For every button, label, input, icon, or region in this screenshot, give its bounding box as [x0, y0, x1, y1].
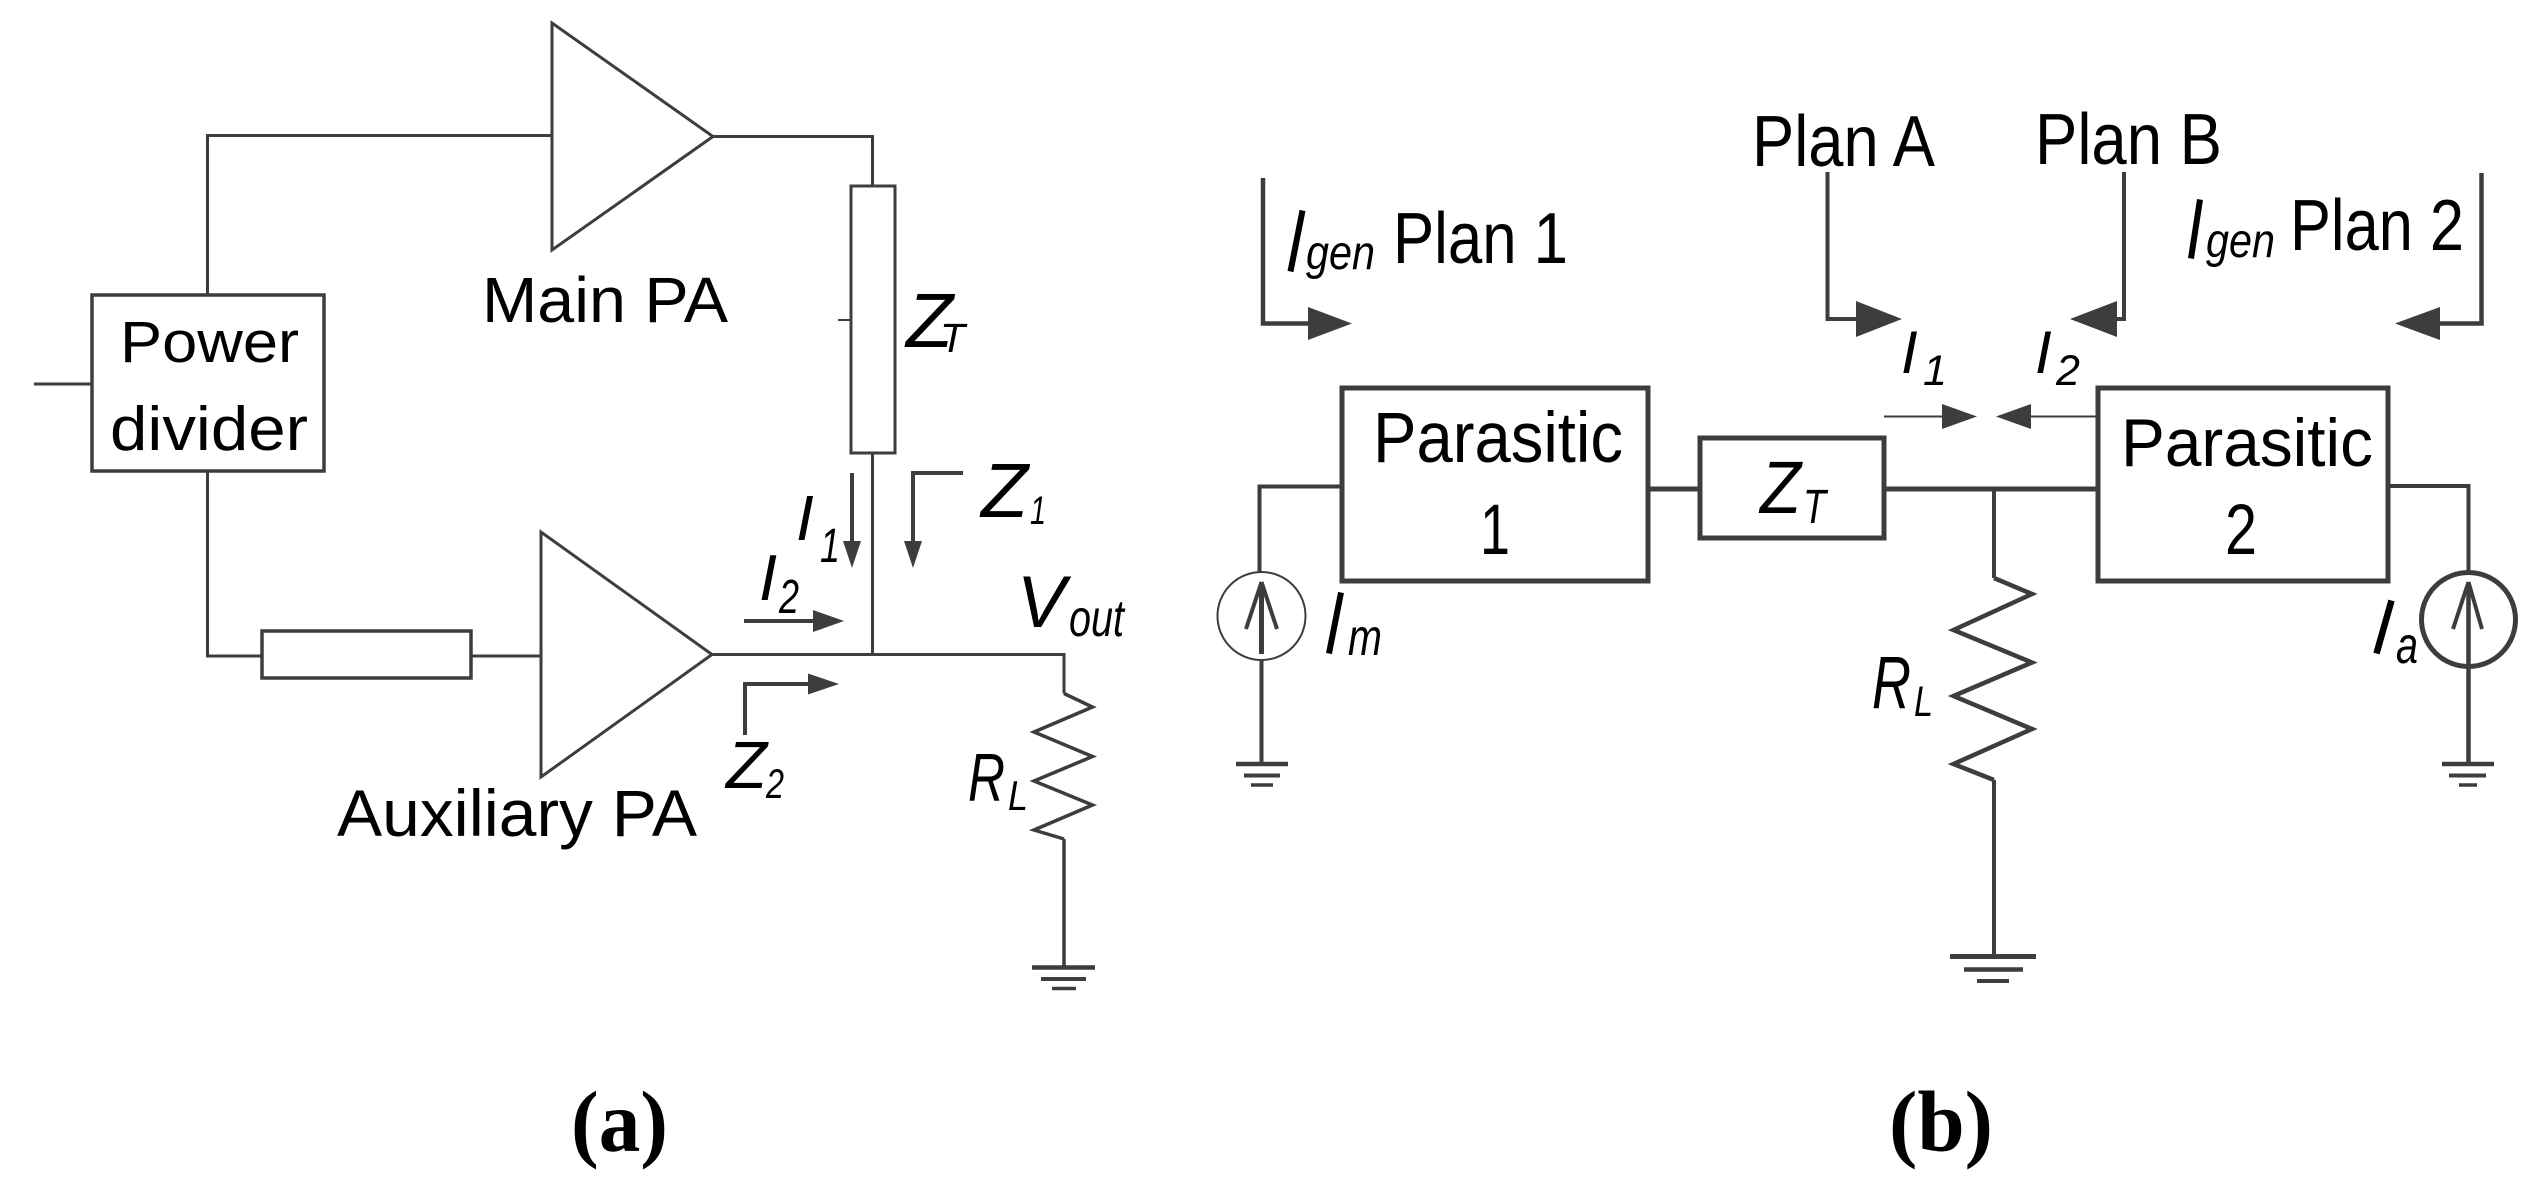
svg-text:I: I — [2035, 319, 2052, 386]
svg-text:Power: Power — [120, 310, 299, 375]
svg-text:Parasitic: Parasitic — [2121, 405, 2373, 481]
svg-text:T: T — [1803, 481, 1829, 534]
svg-text:divider: divider — [110, 395, 308, 464]
svg-text:I: I — [1901, 319, 1918, 386]
svg-text:gen: gen — [2206, 215, 2275, 268]
svg-text:out: out — [1069, 590, 1126, 648]
svg-text:m: m — [1348, 609, 1382, 667]
svg-text:Z: Z — [979, 448, 1031, 534]
svg-text:Plan B: Plan B — [2035, 100, 2222, 180]
svg-text:1: 1 — [1923, 347, 1947, 395]
svg-text:R: R — [1872, 641, 1911, 724]
svg-text:gen: gen — [1306, 227, 1375, 280]
svg-text:Auxiliary PA: Auxiliary PA — [337, 776, 697, 850]
svg-text:Parasitic: Parasitic — [1373, 399, 1623, 478]
svg-text:V: V — [1017, 562, 1072, 643]
svg-text:I: I — [759, 541, 777, 614]
svg-text:1: 1 — [1480, 491, 1510, 570]
svg-text:R: R — [968, 740, 1005, 816]
svg-text:Main PA: Main PA — [482, 264, 728, 336]
svg-text:Plan 1: Plan 1 — [1393, 199, 1568, 279]
svg-text:a: a — [2396, 617, 2418, 675]
svg-text:I: I — [796, 482, 814, 554]
svg-text:L: L — [1008, 772, 1028, 819]
svg-text:T: T — [940, 315, 968, 361]
svg-text:(b): (b) — [1889, 1073, 1993, 1170]
svg-text:Z: Z — [1758, 446, 1803, 529]
svg-text:1: 1 — [820, 520, 840, 573]
svg-text:2: 2 — [778, 571, 799, 624]
svg-text:(a): (a) — [571, 1073, 668, 1170]
svg-text:2: 2 — [765, 760, 784, 807]
svg-text:2: 2 — [2225, 491, 2257, 570]
svg-text:Plan 2: Plan 2 — [2290, 186, 2464, 266]
svg-text:Z: Z — [724, 728, 769, 803]
svg-text:Plan A: Plan A — [1752, 102, 1935, 182]
svg-text:2: 2 — [2055, 347, 2080, 395]
svg-text:L: L — [1914, 678, 1933, 726]
svg-text:1: 1 — [1030, 489, 1046, 533]
